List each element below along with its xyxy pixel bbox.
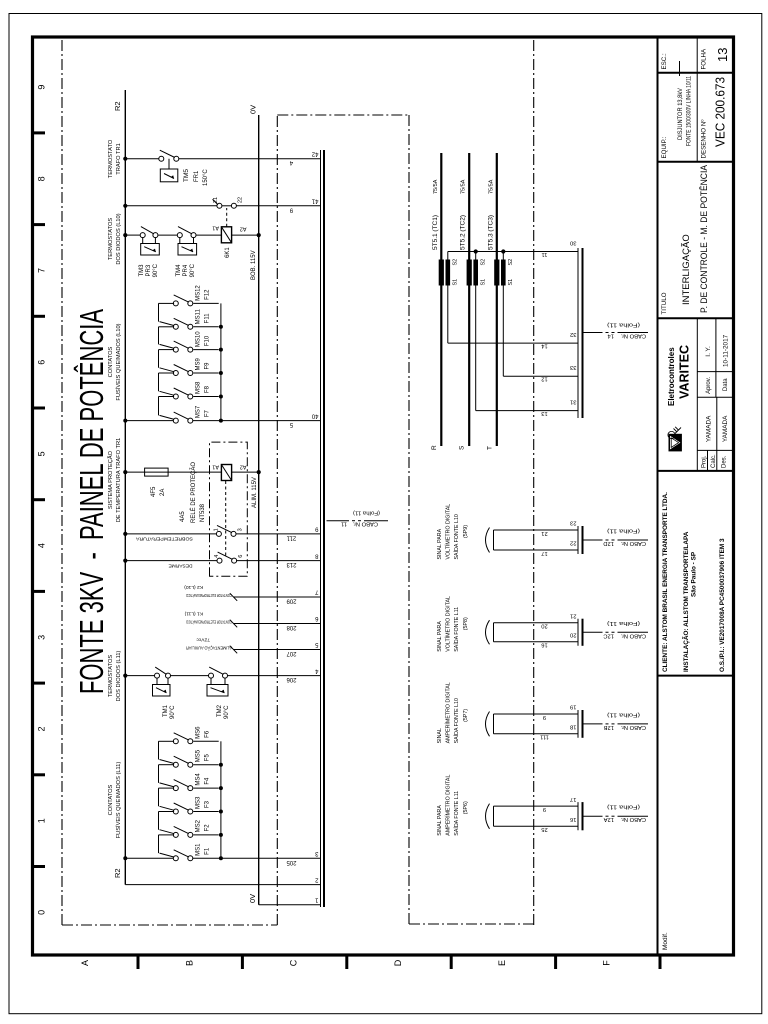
svg-text:0: 0: [37, 910, 47, 915]
coil 6K1 A1-A2: [212, 225, 246, 258]
fuse 4F5 2A: [145, 468, 169, 497]
panel boundary dash-dot left: [62, 924, 277, 926]
signal group amperimetro L11 cabo 12A pair bracket: [486, 804, 490, 829]
signal group voltimetro L10 cabo 12D terminal bar: [578, 526, 583, 554]
svg-text:ALIMENTAÇÃO AUXILIAR: ALIMENTAÇÃO AUXILIAR: [186, 644, 232, 651]
svg-text:11: 11: [341, 521, 347, 527]
svg-text:7: 7: [37, 268, 47, 273]
svg-text:22: 22: [238, 197, 244, 203]
wire 11 CT common to terminal 30: [448, 249, 578, 257]
CT compartment dash-dot left: [409, 923, 534, 925]
wire 14 to terminal 32: [448, 343, 578, 349]
svg-text:0V: 0V: [249, 105, 258, 114]
svg-text:12D: 12D: [603, 540, 614, 546]
wire 12 to terminal 33: [503, 376, 578, 382]
svg-text:INSTALAÇÃO: ALLSTOM TRANSPORT: INSTALAÇÃO: ALLSTOM TRANSPORTE/LAPA: [681, 531, 690, 672]
svg-text:6: 6: [238, 555, 244, 558]
svg-text:K1 (L11): K1 (L11): [184, 610, 203, 616]
svg-text:DOS DIODOS (L11): DOS DIODOS (L11): [116, 651, 122, 702]
header termostatos dos diodos L10: [108, 213, 122, 264]
svg-text:MS6: MS6: [196, 726, 202, 739]
svg-text:VOLTÍMETRO DIGITAL: VOLTÍMETRO DIGITAL: [445, 504, 452, 560]
svg-text:90°C: 90°C: [190, 263, 196, 277]
contact MS7 fuse F7: [159, 397, 211, 424]
svg-text:TM3: TM3: [139, 264, 145, 277]
svg-text:MS1: MS1: [196, 843, 202, 856]
contact MS1 fuse F1: [159, 835, 211, 861]
svg-text:23: 23: [570, 520, 576, 526]
svg-text:A1: A1: [212, 225, 219, 231]
svg-text:FOLHA: FOLHA: [701, 48, 708, 70]
cliente block: [658, 471, 734, 672]
svg-text:CABO Nr.: CABO Nr.: [620, 540, 646, 546]
svg-text:S: S: [459, 445, 466, 450]
contact MS8 fuse F8: [159, 373, 219, 399]
svg-text:F: F: [602, 960, 612, 966]
svg-text:VEC 200.673: VEC 200.673: [713, 77, 728, 147]
wire contator eletropneumatico K2 L10: [184, 584, 321, 601]
svg-text:CABO Nr.: CABO Nr.: [620, 632, 646, 638]
thermostat TM3: [140, 227, 159, 255]
panel boundary dash-dot top: [61, 37, 63, 925]
svg-text:90°C: 90°C: [153, 263, 159, 277]
svg-text:90°C: 90°C: [224, 705, 230, 719]
CT secondary TC2 winding and leads: [473, 252, 486, 411]
svg-text:12A: 12A: [604, 816, 614, 822]
svg-text:Proj.: Proj.: [702, 455, 708, 468]
svg-text:2: 2: [37, 726, 47, 731]
thermostat TM4: [177, 227, 196, 255]
panel boundary dash-dot bottom: [276, 115, 278, 925]
CT compartment dash-dot bottom: [533, 37, 535, 925]
svg-text:211: 211: [286, 534, 296, 540]
svg-text:10-11-2017: 10-11-2017: [723, 334, 730, 367]
relay 4A5 dash-dot outline: [210, 442, 248, 576]
svg-text:F6: F6: [205, 730, 211, 738]
wire contator eletropneumatico K1 L11: [184, 610, 320, 627]
svg-text:YAMADA: YAMADA: [722, 415, 729, 442]
svg-text:5T5.3 (TC3): 5T5.3 (TC3): [487, 215, 494, 250]
svg-text:14: 14: [607, 333, 614, 339]
svg-text:TM5: TM5: [183, 169, 190, 182]
CT secondary TC3 winding and leads: [501, 252, 514, 377]
svg-text:21: 21: [213, 197, 219, 203]
signal group amperimetro L11 cabo 12A terminal numbers: [570, 796, 576, 822]
svg-text:TM1: TM1: [163, 704, 169, 717]
svg-text:F5: F5: [205, 754, 211, 762]
svg-text:TM4: TM4: [176, 264, 182, 277]
cabo nr 11 cable stub: [327, 520, 389, 522]
svg-text:C: C: [289, 959, 299, 966]
cabo nr 12C cable stub: [583, 631, 648, 633]
svg-text:F10: F10: [205, 335, 211, 346]
svg-text:MS10: MS10: [196, 331, 202, 347]
signal group voltimetro L11 cabo 12C terminal bar: [578, 619, 583, 646]
svg-text:(Folha 11): (Folha 11): [607, 620, 640, 626]
header contatos fusiveis queimados L11: [108, 762, 122, 839]
svg-text:R: R: [431, 445, 438, 450]
signal group amperimetro L11 cabo 12A wire numbers: [541, 806, 547, 832]
svg-text:75/5A: 75/5A: [461, 179, 467, 194]
svg-text:5: 5: [37, 451, 47, 456]
svg-text:S2: S2: [508, 259, 514, 266]
CT terminal strip: [577, 248, 579, 418]
svg-text:S1: S1: [508, 279, 514, 286]
contact MS3 fuse F3: [159, 788, 219, 814]
contact MS12 fuse F12: [159, 285, 219, 306]
signal group voltimetro L11 cabo 12C text: [437, 596, 469, 652]
main strip wire numbers: [286, 159, 297, 865]
svg-text:90°C: 90°C: [170, 705, 176, 719]
svg-text:MS2: MS2: [196, 819, 202, 832]
svg-text:A2: A2: [240, 464, 247, 470]
varitec logo: [668, 427, 682, 452]
svg-text:75/5A: 75/5A: [433, 179, 439, 194]
svg-text:75/5A: 75/5A: [488, 179, 494, 194]
branch 6K1 contact 21-22: [123, 197, 320, 208]
signal group voltimetro L11 cabo 12C pair bracket: [486, 620, 490, 644]
svg-text:S1: S1: [453, 279, 459, 286]
svg-text:20: 20: [570, 632, 576, 638]
svg-text:YAMADA: YAMADA: [706, 415, 713, 442]
svg-text:SAÍDA FONTE L11: SAÍDA FONTE L11: [453, 791, 460, 836]
svg-text:DOS DIODOS (L10): DOS DIODOS (L10): [116, 213, 122, 264]
svg-text:40: 40: [311, 412, 318, 418]
labels TM5 FR1 150C: [183, 169, 209, 186]
contact MS11 fuse F11: [159, 303, 219, 329]
svg-text:32: 32: [570, 331, 576, 337]
svg-text:11: 11: [541, 251, 547, 257]
svg-text:30: 30: [570, 240, 576, 246]
svg-text:RELÉ DE PROTEÇÃO: RELÉ DE PROTEÇÃO: [190, 462, 197, 523]
ladder MS7-MS12 blown fuse contacts L10: [123, 303, 320, 422]
svg-text:E: E: [497, 960, 507, 966]
main strip terminal numbers: [311, 150, 318, 902]
svg-text:CABO Nr.: CABO Nr.: [620, 816, 646, 822]
svg-text:(Folha 11): (Folha 11): [607, 711, 640, 717]
svg-text:22: 22: [570, 540, 576, 546]
phase line R with CT 5T5.1 (TC1): [431, 153, 444, 450]
contact MS2 fuse F2: [159, 812, 219, 838]
svg-text:FUSÍVEIS QUEIMADOS (L11): FUSÍVEIS QUEIMADOS (L11): [115, 762, 122, 839]
svg-text:I. Y.: I. Y.: [705, 346, 712, 357]
svg-text:MS4: MS4: [196, 773, 202, 786]
svg-text:17: 17: [570, 796, 576, 802]
svg-text:R2: R2: [113, 101, 122, 111]
svg-text:S1: S1: [481, 279, 487, 286]
wire R2 left drop to terminal 2: [125, 884, 320, 886]
svg-text:13: 13: [541, 410, 547, 416]
svg-text:SAÍDA FONTE L10: SAÍDA FONTE L10: [453, 698, 460, 743]
svg-text:9: 9: [543, 714, 546, 720]
contact MS6 fuse F6: [159, 726, 219, 744]
svg-text:3: 3: [238, 528, 244, 531]
svg-text:CONTATOR ELETROPNEUMÁTICO: CONTATOR ELETROPNEUMÁTICO: [186, 618, 232, 625]
signal group voltimetro L11 cabo 12C wires: [494, 623, 579, 642]
main terminal strip: [320, 150, 322, 907]
svg-text:F7: F7: [205, 409, 211, 417]
R2 rail: [124, 90, 126, 885]
signal group amperimetro L11 cabo 12A text: [437, 775, 469, 836]
svg-text:TITULO: TITULO: [661, 292, 668, 314]
svg-text:4A5: 4A5: [180, 511, 186, 522]
svg-text:(5P9): (5P9): [463, 525, 469, 538]
svg-text:6K1: 6K1: [225, 247, 231, 258]
signal group voltimetro L10 cabo 12D text: [437, 504, 469, 560]
svg-text:CONTATOR ELETROPNEUMÁTICO: CONTATOR ELETROPNEUMÁTICO: [186, 592, 232, 599]
phase line S with CT 5T5.2 (TC2): [459, 153, 472, 450]
svg-text:9: 9: [543, 806, 546, 812]
svg-text:33: 33: [570, 364, 576, 370]
svg-text:(Folha 11): (Folha 11): [607, 322, 640, 328]
svg-text:R2: R2: [113, 868, 122, 878]
svg-text:3: 3: [37, 635, 47, 640]
svg-text:206: 206: [286, 676, 297, 682]
svg-text:SAÍDA FONTE L10: SAÍDA FONTE L10: [453, 514, 460, 559]
svg-text:AMPERÍMETRO DIGITAL: AMPERÍMETRO DIGITAL: [445, 775, 452, 836]
svg-text:31: 31: [570, 399, 576, 405]
svg-text:4: 4: [214, 555, 220, 558]
svg-text:(5P6): (5P6): [463, 801, 469, 814]
svg-text:4F5: 4F5: [151, 486, 157, 497]
coil 4A5 A1-A2: [212, 464, 246, 481]
svg-text:K2 (L10): K2 (L10): [184, 584, 203, 590]
svg-text:NT538: NT538: [200, 503, 206, 522]
wire 0V left drop to terminal 1: [259, 904, 321, 906]
svg-text:MS9: MS9: [196, 358, 202, 371]
panel boundary dash-dot right connector: [277, 114, 409, 116]
svg-text:0V: 0V: [248, 894, 257, 903]
svg-text:19: 19: [570, 704, 576, 710]
svg-text:(5P7): (5P7): [463, 709, 469, 722]
svg-text:9: 9: [37, 85, 47, 90]
svg-text:MS7: MS7: [196, 405, 202, 418]
svg-text:D: D: [393, 959, 403, 966]
mechanical link 4A5: [225, 481, 227, 556]
svg-text:(Folha 11): (Folha 11): [607, 528, 640, 534]
contact MS10 fuse F10: [159, 327, 219, 352]
svg-text:FUSÍVEIS QUEIMADOS (L10): FUSÍVEIS QUEIMADOS (L10): [115, 323, 122, 400]
svg-text:Aprov.: Aprov.: [706, 377, 712, 394]
svg-text:42: 42: [311, 150, 318, 156]
cabo nr 12D cable stub: [583, 539, 648, 541]
svg-text:8: 8: [37, 176, 47, 181]
svg-text:INTERLIGAÇÃO: INTERLIGAÇÃO: [681, 234, 692, 305]
esc cell: [658, 53, 698, 76]
svg-text:CABO Nr.: CABO Nr.: [620, 724, 646, 730]
svg-text:5T5.2 (TC2): 5T5.2 (TC2): [460, 215, 467, 250]
svg-text:18: 18: [570, 724, 576, 730]
svg-text:ALIM. 115V: ALIM. 115V: [252, 477, 258, 508]
svg-text:TERMOSTATOS: TERMOSTATOS: [108, 655, 114, 698]
svg-text:FR1: FR1: [194, 170, 200, 182]
svg-text:SAÍDA FONTE L11: SAÍDA FONTE L11: [453, 607, 460, 652]
svg-text:VOLTÍMETRO DIGITAL: VOLTÍMETRO DIGITAL: [445, 596, 452, 652]
contact MS9 fuse F9: [159, 350, 219, 376]
svg-text:F8: F8: [205, 385, 211, 393]
contact 4A5 sobretemperatura 1-3: [123, 525, 320, 536]
titulo cell: [658, 165, 734, 318]
contact 4A5 desarme 4-6: [123, 552, 320, 563]
signal group voltimetro L10 cabo 12D wires: [494, 530, 579, 550]
wire 13 to terminal 31: [476, 410, 578, 416]
signal group amperimetro L10 cabo 12B wires: [494, 714, 579, 734]
header sistema protecao trafo TR1: [107, 438, 122, 523]
branch termostatos diodos L11 wire: [123, 674, 320, 678]
wire alimentacao auxiliar 72Vcc: [186, 636, 321, 653]
svg-text:B: B: [184, 960, 194, 966]
svg-text:111: 111: [540, 734, 549, 740]
svg-text:Des.: Des.: [722, 455, 728, 468]
thermostat TM5: [159, 150, 179, 182]
svg-text:TRAFO TR1: TRAFO TR1: [116, 143, 122, 175]
svg-text:205: 205: [286, 859, 297, 865]
svg-text:12C: 12C: [603, 632, 614, 638]
svg-text:MS11: MS11: [196, 308, 202, 324]
top ruler digits 0-9: [37, 85, 47, 915]
svg-text:CABO Nr.: CABO Nr.: [620, 333, 646, 339]
svg-text:16: 16: [541, 642, 547, 648]
desenho cell: [697, 37, 727, 162]
svg-text:1: 1: [214, 528, 220, 531]
svg-text:Data: Data: [723, 378, 729, 391]
svg-text:SINAL PARA: SINAL PARA: [437, 528, 443, 559]
svg-text:F9: F9: [205, 362, 211, 370]
svg-text:SINAL: SINAL: [437, 728, 443, 743]
svg-text:P. DE CONTROLE - M. DE POTÊNCI: P. DE CONTROLE - M. DE POTÊNCIA: [699, 165, 709, 313]
svg-text:SINAL PARA: SINAL PARA: [437, 805, 443, 836]
relay 4A5 labels: [180, 462, 206, 523]
svg-text:21: 21: [570, 612, 576, 618]
signal group amperimetro L10 cabo 12B pair bracket: [486, 712, 490, 737]
svg-text:S2: S2: [481, 259, 487, 266]
svg-text:20: 20: [541, 623, 547, 629]
svg-text:209: 209: [286, 598, 297, 604]
svg-text:AMPERÍMETRO DIGITAL: AMPERÍMETRO DIGITAL: [445, 682, 452, 743]
mechanical link 6K1: [226, 208, 228, 227]
svg-text:T: T: [486, 446, 493, 450]
svg-text:FONTE 1500/300V LINHA 10/11: FONTE 1500/300V LINHA 10/11: [687, 75, 693, 146]
svg-text:DESENHO Nº: DESENHO Nº: [701, 119, 708, 159]
svg-text:SISTEMA PROTEÇÃO: SISTEMA PROTEÇÃO: [107, 450, 114, 509]
svg-text:DISJUNTOR 13,8kV: DISJUNTOR 13,8kV: [678, 88, 684, 140]
svg-text:MS12: MS12: [196, 285, 202, 301]
signal group amperimetro L11 cabo 12A wires: [494, 806, 579, 826]
svg-text:CABO Nr.: CABO Nr.: [352, 521, 378, 527]
svg-text:CLIENTE: ALSTOM BRASIL ENERGI: CLIENTE: ALSTOM BRASIL ENERGIA TRANSPORT…: [662, 492, 669, 672]
title block outline: [658, 37, 734, 955]
svg-text:F4: F4: [205, 777, 211, 785]
svg-text:ESC.:: ESC.:: [661, 53, 668, 69]
left ruler letters A-F: [80, 959, 612, 966]
left ruler ticks: [138, 955, 660, 969]
phase line T with CT 5T5.3 (TC3): [486, 153, 499, 450]
varitec name: [667, 345, 692, 406]
svg-text:A2: A2: [240, 226, 247, 232]
svg-text:1: 1: [37, 818, 47, 823]
svg-text:5T5.1 (TC1): 5T5.1 (TC1): [432, 215, 439, 250]
signal group amperimetro L10 cabo 12B terminal bar: [578, 710, 583, 738]
svg-text:SINAL PARA: SINAL PARA: [437, 621, 443, 652]
svg-text:6: 6: [37, 360, 47, 365]
cabo nr 12A cable stub: [583, 815, 648, 817]
header termostato trafo TR1: [108, 139, 122, 178]
svg-text:PR4: PR4: [183, 264, 189, 276]
svg-text:F12: F12: [205, 289, 211, 300]
svg-text:MS8: MS8: [196, 381, 202, 394]
svg-text:VARITEC: VARITEC: [678, 345, 692, 399]
cabo nr 14 cable stub: [583, 332, 648, 334]
equip cell: [658, 75, 734, 161]
svg-text:2A: 2A: [160, 489, 166, 496]
approval table texts: [702, 334, 730, 468]
branch termostatos diodos L10 wire: [123, 233, 261, 237]
svg-text:21: 21: [541, 530, 547, 536]
svg-text:A1: A1: [212, 464, 219, 470]
svg-text:EQUIP.:: EQUIP.:: [661, 136, 668, 158]
CT strip terminal numbers 30-33: [570, 240, 576, 405]
svg-text:F3: F3: [205, 800, 211, 808]
svg-text:12B: 12B: [604, 724, 614, 730]
svg-text:TM2: TM2: [217, 704, 223, 717]
svg-text:BOB. 115V: BOB. 115V: [251, 250, 257, 280]
thermostat TM2: [207, 667, 228, 696]
svg-text:TERMOSTATOS: TERMOSTATOS: [108, 218, 114, 261]
svg-text:4: 4: [37, 543, 47, 548]
0V rail: [258, 115, 260, 905]
svg-text:São Paulo - SP: São Paulo - SP: [691, 551, 698, 597]
svg-text:CONTATOS: CONTATOS: [108, 346, 114, 377]
folha cell: [697, 48, 733, 73]
svg-text:Calc.: Calc.: [711, 454, 717, 468]
svg-text:FONTE 3KV - PAINEL DE POTÊNC: FONTE 3KV - PAINEL DE POTÊNCIA: [73, 309, 110, 694]
signal group voltimetro L10 cabo 12D wire numbers: [541, 530, 547, 556]
contact MS5 fuse F5: [159, 741, 219, 767]
ladder MS1-MS6 blown fuse contacts L11: [123, 741, 320, 860]
svg-text:SOBRETEMPERATURA: SOBRETEMPERATURA: [135, 536, 193, 542]
svg-text:213: 213: [286, 561, 297, 567]
signal group voltimetro L11 cabo 12C terminal numbers: [570, 612, 576, 637]
header contatos fusiveis queimados L10: [108, 323, 122, 400]
header termostatos dos diodos L11: [108, 651, 122, 702]
svg-text:MS3: MS3: [196, 796, 202, 809]
signal group amperimetro L10 cabo 12B terminal numbers: [570, 704, 576, 730]
svg-text:208: 208: [286, 624, 297, 630]
svg-text:150°C: 150°C: [203, 169, 209, 186]
svg-text:A: A: [80, 960, 90, 966]
approval table: [697, 318, 733, 471]
svg-text:PR3: PR3: [146, 264, 152, 276]
svg-text:F1: F1: [205, 847, 211, 855]
svg-text:13: 13: [715, 48, 730, 62]
svg-text:CONTATOS: CONTATOS: [108, 784, 114, 815]
svg-text:14: 14: [541, 343, 548, 349]
svg-text:Modif.: Modif.: [662, 932, 669, 950]
svg-text:MS5: MS5: [196, 749, 202, 762]
svg-text:41: 41: [311, 198, 318, 204]
top ruler ticks: [33, 133, 46, 867]
svg-text:Eletrocontroles: Eletrocontroles: [667, 347, 676, 406]
signal group amperimetro L11 cabo 12A terminal bar: [578, 802, 583, 830]
svg-text:12: 12: [541, 376, 547, 382]
svg-text:207: 207: [286, 650, 297, 656]
svg-text:TERMOSTATO: TERMOSTATO: [108, 139, 114, 178]
svg-text:16: 16: [570, 816, 576, 822]
svg-text:25: 25: [541, 826, 547, 832]
cabo nr 12B cable stub: [583, 723, 648, 725]
svg-text:DE TEMPERATURA TRAFO TR1: DE TEMPERATURA TRAFO TR1: [116, 438, 122, 523]
signal group voltimetro L10 cabo 12D terminal numbers: [570, 520, 576, 546]
